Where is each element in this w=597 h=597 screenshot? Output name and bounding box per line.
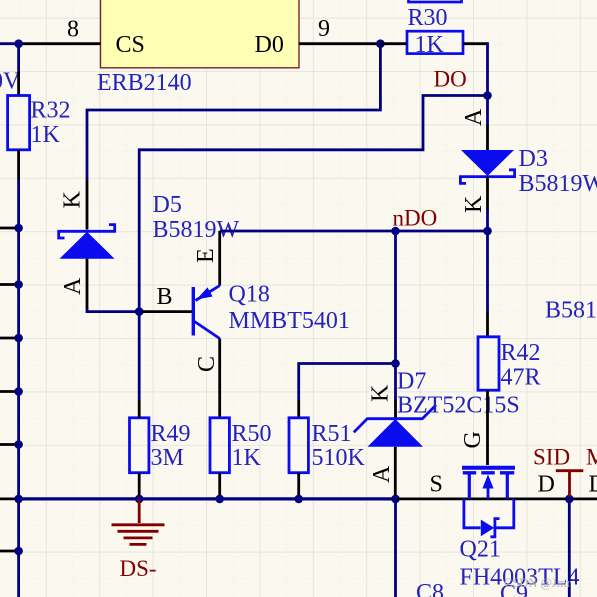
mosfet Q21 body diode loop right bbox=[495, 499, 514, 528]
svg-text:D5: D5 bbox=[153, 192, 182, 218]
resistor R32 pin bottom bbox=[17, 150, 20, 180]
svg-text:C: C bbox=[194, 356, 220, 372]
svg-text:R30: R30 bbox=[408, 5, 448, 31]
svg-text:M: M bbox=[586, 445, 597, 470]
resistor R32 bbox=[8, 96, 30, 150]
junction pin9 bbox=[376, 39, 385, 48]
svg-text:47R: 47R bbox=[501, 365, 541, 391]
svg-text:C8: C8 bbox=[416, 580, 444, 597]
junction rail R51 bbox=[294, 495, 303, 504]
svg-text:ERB2140: ERB2140 bbox=[97, 70, 192, 96]
pin 9 wire bbox=[299, 42, 381, 45]
svg-text:K: K bbox=[368, 384, 394, 402]
bus stub y391 bbox=[0, 390, 19, 393]
diode D7 triangle bbox=[368, 419, 424, 447]
diode D5 pin K bbox=[86, 180, 89, 230]
svg-text:3M: 3M bbox=[151, 445, 184, 471]
mosfet Q21 body leg with arrow bbox=[487, 486, 490, 499]
resistor R49 pin bottom bbox=[138, 473, 141, 499]
junction rail R50 bbox=[215, 495, 224, 504]
svg-text:1K: 1K bbox=[415, 32, 445, 58]
ground symbol DS- bbox=[112, 499, 165, 545]
svg-text:D3: D3 bbox=[519, 146, 548, 172]
junction nDO at D7 bbox=[391, 227, 400, 236]
svg-text:Q21: Q21 bbox=[460, 537, 501, 563]
resistor R42 bbox=[478, 337, 499, 390]
mosfet Q21 source leg bbox=[468, 473, 471, 499]
svg-text:9: 9 bbox=[318, 16, 330, 42]
bus stub y284 bbox=[0, 283, 19, 286]
bus stub y497 bbox=[0, 497, 19, 500]
transistor Q18 emitter diagonal bbox=[196, 286, 220, 301]
diode D7 pin K bbox=[394, 399, 397, 418]
left bus wire bbox=[17, 180, 20, 597]
resistor R42 wire from nDO bbox=[486, 231, 489, 312]
svg-text:R32: R32 bbox=[31, 98, 71, 124]
resistor R51 bbox=[289, 418, 308, 473]
diode D3 triangle bbox=[461, 150, 514, 176]
junction y497 bbox=[14, 495, 23, 504]
junction y391 bbox=[14, 387, 23, 396]
svg-text:SID: SID bbox=[533, 445, 570, 470]
transistor Q18 emitter arrow bbox=[197, 287, 213, 299]
IC U? ERB2140 body bbox=[101, 0, 300, 68]
junction y444 bbox=[14, 440, 23, 449]
resistor R49 pin top bbox=[138, 400, 141, 418]
svg-text:R50: R50 bbox=[232, 421, 272, 447]
wire nDO rail bbox=[220, 230, 488, 233]
wire D5 to base node bbox=[87, 308, 139, 312]
diode D7 pin A bbox=[394, 447, 397, 499]
wire C8 bbox=[394, 499, 397, 597]
svg-text:1K: 1K bbox=[31, 122, 61, 148]
mosfet Q21 pin G bbox=[486, 390, 489, 465]
diode D3 pin A bbox=[486, 125, 489, 150]
resistor R50 pin bottom bbox=[218, 473, 221, 499]
diode D3 pin K bbox=[486, 177, 489, 210]
wire R30 to corner bbox=[463, 42, 488, 45]
svg-text:DO: DO bbox=[434, 67, 467, 92]
svg-text:1K: 1K bbox=[232, 445, 262, 471]
svg-text:CS: CS bbox=[116, 32, 145, 58]
resistor R42 pin top bbox=[486, 312, 489, 337]
mosfet Q21 channel dashes bbox=[463, 471, 514, 474]
junction DO bbox=[483, 91, 492, 100]
svg-text:B5819W: B5819W bbox=[545, 298, 597, 324]
svg-text:B5819W: B5819W bbox=[519, 171, 597, 197]
svg-text:8: 8 bbox=[67, 17, 79, 43]
wire nDO down to D7 bbox=[394, 231, 397, 399]
wire ground rail bbox=[19, 497, 396, 500]
diode D5 pin A bbox=[86, 259, 89, 309]
svg-text:510K: 510K bbox=[312, 445, 366, 471]
resistor R32 pin top bbox=[17, 72, 20, 96]
svg-text:BZT52C15S: BZT52C15S bbox=[397, 393, 520, 419]
bus stub y338 bbox=[0, 337, 19, 340]
svg-text:D: D bbox=[589, 472, 597, 498]
diode D7 zener bar bbox=[354, 405, 436, 432]
svg-text:D0: D0 bbox=[255, 32, 284, 58]
transistor Q18 collector diagonal bbox=[195, 322, 220, 339]
wire C9 bbox=[568, 499, 571, 597]
junction y228 bbox=[14, 224, 23, 233]
junction y551 bbox=[14, 547, 23, 556]
svg-text:R49: R49 bbox=[151, 421, 191, 447]
resistor R30 bbox=[407, 31, 463, 53]
svg-text:E: E bbox=[193, 248, 219, 263]
diode D3 schottky bar bbox=[460, 170, 514, 184]
svg-text:A: A bbox=[60, 277, 86, 295]
svg-text:D: D bbox=[538, 472, 555, 498]
mosfet Q21 body diode triangle bbox=[481, 520, 494, 537]
wire DO to base node bbox=[139, 96, 487, 401]
diode D5 schottky bar bbox=[59, 225, 115, 238]
wire corner down to D3 bbox=[486, 42, 489, 125]
svg-text:CSDN @Jmr: CSDN @Jmr bbox=[504, 576, 572, 590]
svg-text:G: G bbox=[460, 431, 486, 448]
junction y338 bbox=[14, 334, 23, 343]
svg-text:nDO: nDO bbox=[393, 206, 438, 231]
resistor R51 pin bottom bbox=[297, 473, 300, 499]
resistor R49 bbox=[130, 418, 149, 473]
svg-text:DS-: DS- bbox=[120, 556, 157, 581]
svg-text:R42: R42 bbox=[501, 340, 541, 366]
svg-text:MMBT5401: MMBT5401 bbox=[229, 308, 350, 334]
junction R51 branch bbox=[391, 359, 400, 368]
wire rail to Q21 and right bbox=[396, 497, 597, 500]
wire left stub at top bbox=[0, 44, 19, 72]
svg-text:A: A bbox=[369, 465, 395, 483]
svg-text:D7: D7 bbox=[397, 369, 426, 395]
junction y284 bbox=[14, 280, 23, 289]
resistor R51 pin top bbox=[297, 400, 300, 418]
mosfet Q21 gate bar bbox=[462, 466, 515, 470]
diode D5 triangle bbox=[60, 232, 115, 259]
partial resistor above R30 bbox=[409, 0, 462, 2]
bus stub y444 bbox=[0, 443, 19, 446]
svg-text:K: K bbox=[461, 195, 487, 213]
svg-text:K: K bbox=[60, 191, 86, 209]
svg-text:B: B bbox=[157, 284, 173, 310]
bus stub y551 bbox=[0, 550, 19, 553]
resistor R50 bbox=[210, 418, 229, 473]
wire D3 to nDO bbox=[486, 210, 489, 231]
wire junction to R30 bbox=[380, 42, 407, 45]
svg-text:R51: R51 bbox=[312, 421, 352, 447]
junction rail R49 bbox=[135, 495, 144, 504]
wire pin9 to D5 bbox=[87, 44, 380, 180]
mosfet Q21 body diode loop bbox=[464, 499, 481, 528]
transistor Q18 base bar bbox=[192, 287, 195, 336]
mosfet Q21 body diode bar bbox=[490, 519, 499, 537]
node junction top-left bbox=[14, 39, 23, 48]
mosfet Q21 drain leg bbox=[506, 473, 509, 499]
junction rail D7 bbox=[391, 495, 400, 504]
power port SID bbox=[556, 471, 584, 497]
wire branch to R51 bbox=[299, 364, 396, 401]
transistor Q18 pin E bbox=[218, 231, 221, 286]
bus stub y228 bbox=[0, 227, 19, 230]
pin 8 wire bbox=[19, 42, 101, 45]
svg-text:S: S bbox=[430, 472, 443, 498]
transistor Q18 pin B bbox=[142, 310, 192, 313]
svg-text:Q18: Q18 bbox=[229, 282, 270, 308]
junction nDO at D3 bbox=[483, 227, 492, 236]
junction rail SID bbox=[565, 495, 574, 504]
transistor Q18 pin C bbox=[218, 339, 221, 418]
junction base node bbox=[135, 307, 144, 316]
svg-text:A: A bbox=[461, 108, 487, 126]
